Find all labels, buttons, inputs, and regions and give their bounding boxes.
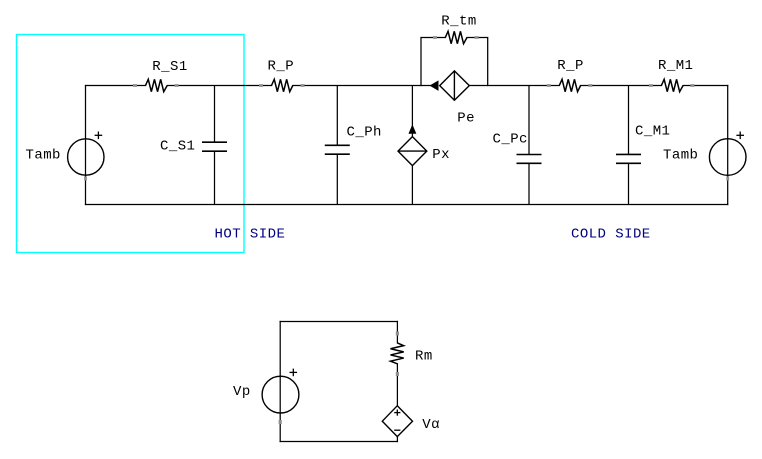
wire left rail (through Tamb hot) — [85, 86, 87, 205]
wire C_Ph top — [336, 86, 338, 146]
wire Px top — [411, 86, 413, 137]
svg-text:Pe: Pe — [457, 111, 475, 127]
resistor R_S1 — [146, 79, 168, 91]
svg-text:Tamb: Tamb — [663, 148, 698, 164]
resistor R_M1 — [661, 79, 683, 91]
wire C_M1 bottom — [628, 163, 630, 204]
wire top rail Pe to R_P cold — [469, 85, 559, 87]
wire C_Ph bottom — [336, 154, 338, 204]
wire C_Pc top — [528, 86, 530, 155]
wire C_S1 bottom — [214, 151, 216, 204]
plus sign of Tamb hot — [95, 132, 103, 140]
svg-text:C_Pc: C_Pc — [493, 132, 528, 148]
pin cue Rm bottom — [396, 372, 399, 376]
wire top rail R_M1 to right corner — [683, 85, 728, 87]
svg-text:COLD SIDE: COLD SIDE — [571, 227, 651, 243]
capacitor C_S1 — [202, 142, 227, 151]
wire top rail left segment (node N1 to R_S1) — [86, 85, 146, 87]
wire lower top rail — [280, 321, 397, 323]
pin cue R_S1 left — [133, 84, 137, 87]
plus sign inside Valpha — [394, 410, 400, 416]
svg-text:Tamb: Tamb — [26, 148, 61, 164]
pin cue below Tamb cold — [726, 177, 729, 181]
wire Px bottom — [411, 166, 413, 205]
pin cue R_P cold left — [547, 84, 551, 87]
wire top rail R_P to Pe arrow — [293, 85, 431, 87]
wire bottom rail — [86, 204, 728, 206]
wire top rail R_P cold to R_M1 — [581, 85, 662, 87]
svg-text:HOT SIDE: HOT SIDE — [215, 227, 286, 243]
resistor Rm (vertical) — [391, 343, 404, 364]
capacitor C_M1 — [616, 154, 641, 163]
current source Px (diamond with arrow) — [398, 137, 427, 166]
plus sign of Tamb cold — [736, 132, 744, 140]
pin cue R_M1 right — [690, 84, 694, 87]
wire top rail R_S1 to R_P — [167, 85, 271, 87]
wire lower right top (to Rm) — [396, 322, 398, 343]
svg-text:Rm: Rm — [415, 349, 433, 365]
voltage source Tamb cold (circle) — [709, 139, 746, 176]
pin cue R_S1 right — [175, 84, 179, 87]
controlled voltage source Valpha (diamond) — [382, 406, 412, 437]
wire C_S1 top — [214, 86, 216, 143]
wire lower bottom rail — [280, 441, 397, 443]
pin cue Rm top — [396, 332, 399, 336]
svg-text:C_Ph: C_Ph — [347, 125, 382, 141]
wire Valpha to bottom rail — [396, 437, 398, 442]
plus sign of Vp — [290, 369, 298, 377]
resistor R_P hot — [272, 79, 293, 91]
minus sign inside Valpha — [394, 429, 400, 431]
pin cue below Vp — [279, 420, 282, 424]
wire C_Pc bottom — [528, 163, 530, 204]
pin cue R_P hot right — [301, 84, 305, 87]
resistor R_P cold — [559, 79, 580, 91]
svg-text:R_M1: R_M1 — [658, 58, 693, 74]
svg-text:R_S1: R_S1 — [152, 59, 187, 75]
voltage source Tamb hot (circle) — [68, 139, 104, 175]
voltage source Vp (circle) — [262, 376, 299, 413]
arrow of Pe — [431, 81, 438, 90]
svg-text:Px: Px — [432, 147, 450, 163]
resistor R_tm — [445, 31, 467, 43]
pin cue R_P hot left — [259, 84, 263, 87]
pin cue below Tamb hot — [84, 177, 87, 181]
pin cue R_tm left — [433, 36, 437, 39]
wire lower left rail (through Vp) — [279, 322, 281, 442]
capacitor C_Pc — [517, 155, 542, 164]
wire C_M1 top — [628, 86, 630, 155]
wire Rm to Valpha — [396, 364, 398, 406]
svg-text:C_S1: C_S1 — [160, 139, 195, 155]
wire right rail (through Tamb cold) — [727, 86, 729, 205]
svg-text:Vp: Vp — [233, 384, 251, 400]
svg-text:R_P: R_P — [268, 59, 295, 75]
svg-text:C_M1: C_M1 — [635, 124, 670, 140]
pin cue R_tm right — [475, 36, 479, 39]
wire R_tm left leg — [421, 38, 445, 86]
svg-text:Vα: Vα — [422, 417, 440, 433]
wire R_tm right leg — [467, 38, 488, 86]
arrow of Px — [409, 126, 415, 134]
svg-text:R_P: R_P — [557, 58, 584, 74]
svg-text:R_tm: R_tm — [441, 14, 476, 30]
capacitor C_Ph — [325, 145, 350, 154]
pin cue R_M1 left — [649, 84, 653, 87]
controlled source Pe (diamond with vertical bar) — [440, 71, 470, 100]
hot side boundary box (cyan) — [17, 35, 245, 253]
pin cue R_P cold right — [588, 84, 592, 87]
